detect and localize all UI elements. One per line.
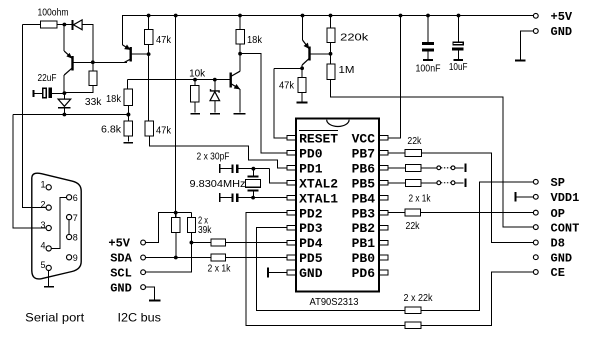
svg-text:CONT: CONT [551, 221, 580, 235]
svg-text:I2C bus: I2C bus [118, 310, 162, 324]
svg-text:PB3: PB3 [352, 206, 376, 221]
svg-text:PD5: PD5 [299, 251, 323, 266]
svg-text:47k: 47k [279, 81, 295, 92]
svg-text:PB4: PB4 [352, 191, 376, 206]
svg-text:47k: 47k [156, 126, 172, 137]
svg-text:8: 8 [73, 233, 78, 243]
svg-text:100nF: 100nF [416, 64, 441, 75]
svg-text:39k: 39k [198, 225, 212, 236]
svg-text:9.8304MHz: 9.8304MHz [190, 179, 246, 190]
svg-text:2 x 30pF: 2 x 30pF [197, 151, 230, 162]
svg-text:2 x 1k: 2 x 1k [409, 193, 432, 204]
svg-text:PB5: PB5 [352, 176, 376, 191]
svg-text:Serial port: Serial port [25, 310, 85, 324]
svg-text:2 x 1k: 2 x 1k [208, 263, 232, 274]
svg-text:PB0: PB0 [352, 251, 376, 266]
svg-text:2 x 22k: 2 x 22k [404, 293, 434, 304]
svg-text:18k: 18k [106, 94, 122, 105]
svg-text:PB7: PB7 [352, 146, 375, 161]
svg-text:47k: 47k [156, 35, 172, 46]
svg-text:7: 7 [73, 213, 78, 223]
svg-text:1: 1 [41, 179, 46, 189]
svg-text:PD3: PD3 [299, 221, 323, 236]
svg-text:PD2: PD2 [299, 206, 323, 221]
svg-text:10k: 10k [189, 69, 206, 80]
svg-text:+5V: +5V [108, 237, 130, 251]
svg-text:6: 6 [73, 193, 78, 203]
svg-text:XTAL2: XTAL2 [299, 176, 338, 191]
svg-text:PD6: PD6 [352, 266, 376, 281]
svg-text:2: 2 [41, 200, 46, 210]
svg-text:3: 3 [41, 220, 46, 230]
svg-text:SP: SP [551, 176, 565, 190]
svg-text:GND: GND [110, 281, 132, 295]
svg-text:100ohm: 100ohm [38, 8, 69, 19]
svg-text:CE: CE [551, 266, 565, 280]
svg-text:GND: GND [299, 266, 323, 281]
svg-text:PD4: PD4 [299, 236, 323, 251]
svg-text:5: 5 [41, 260, 46, 270]
svg-text:6.8k: 6.8k [101, 124, 122, 135]
svg-text:VDD1: VDD1 [551, 191, 580, 205]
svg-text:PD1: PD1 [299, 161, 323, 176]
svg-text:RESET: RESET [299, 132, 338, 147]
svg-text:22k: 22k [406, 221, 421, 232]
svg-text:33k: 33k [85, 97, 103, 108]
svg-text:18k: 18k [247, 35, 263, 46]
svg-text:VCC: VCC [352, 132, 376, 147]
svg-text:OP: OP [551, 207, 565, 221]
svg-text:+5V: +5V [551, 10, 573, 24]
svg-text:4: 4 [41, 241, 46, 251]
svg-text:GND: GND [551, 251, 573, 265]
svg-text:GND: GND [551, 25, 573, 39]
svg-text:PB6: PB6 [352, 161, 376, 176]
svg-text:22uF: 22uF [38, 73, 57, 84]
svg-text:1M: 1M [339, 65, 355, 76]
svg-text:SDA: SDA [110, 252, 132, 266]
svg-text:10uF: 10uF [449, 62, 468, 73]
svg-text:PB1: PB1 [352, 236, 376, 251]
svg-text:220k: 220k [340, 32, 369, 43]
svg-text:PD0: PD0 [299, 146, 323, 161]
svg-text:SCL: SCL [110, 266, 132, 280]
svg-text:D8: D8 [551, 237, 565, 251]
svg-text:9: 9 [73, 253, 78, 263]
svg-text:XTAL1: XTAL1 [299, 191, 338, 206]
svg-text:22k: 22k [407, 136, 422, 147]
svg-text:AT90S2313: AT90S2313 [310, 297, 359, 308]
svg-text:PB2: PB2 [352, 221, 376, 236]
